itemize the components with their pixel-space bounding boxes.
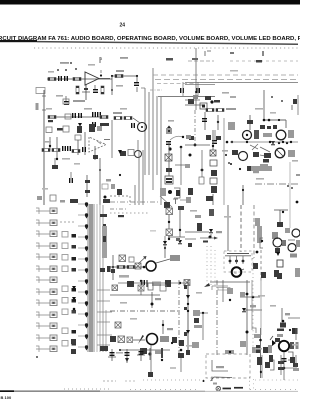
capacitor pair bc1	[108, 349, 116, 361]
gray bar right2	[160, 336, 169, 342]
connector stub K2	[36, 103, 39, 110]
transistor T105	[243, 131, 252, 140]
dark X bottom	[261, 272, 282, 279]
bus right comps	[100, 214, 107, 272]
tick marks on bus	[42, 96, 46, 110]
chain	[85, 175, 90, 197]
wire hook above logo	[203, 377, 233, 385]
transistor T101 leads	[82, 85, 90, 100]
transistor T102	[138, 123, 147, 132]
wire h3	[185, 104, 205, 106]
junction	[111, 255, 145, 280]
right edge marks	[296, 174, 300, 203]
volume area bottom wires	[204, 283, 230, 290]
capacitor C101	[58, 76, 62, 81]
cap C113	[69, 172, 73, 183]
dash vert	[129, 196, 131, 205]
dash marks bottom	[103, 380, 298, 381]
dark comp below	[263, 159, 269, 163]
bottom wires	[107, 266, 190, 287]
rb wire right	[288, 317, 300, 319]
resistor R109	[115, 70, 124, 78]
node labels row	[57, 57, 128, 71]
col label	[194, 325, 202, 328]
value label fuzz mid-right	[222, 150, 298, 180]
bottom rule	[0, 390, 298, 392]
GRUNDIG wordmark dash 2	[234, 387, 243, 389]
capacitor C104	[64, 96, 69, 105]
value label fuzz mid-left	[42, 141, 80, 190]
ladder resistor L13	[36, 346, 57, 352]
boxx C1	[119, 255, 126, 262]
svg-text:B 100: B 100	[1, 395, 12, 400]
dark mark	[185, 239, 196, 247]
gray box right	[295, 268, 300, 277]
left edge marks2	[184, 285, 187, 336]
boxx B1	[166, 208, 173, 215]
left bracket	[260, 238, 263, 248]
col diode	[186, 330, 190, 334]
capacitor C112	[62, 146, 71, 151]
boxx B2	[166, 229, 173, 236]
gray bar left of cluster	[257, 226, 262, 243]
wire B2	[168, 236, 170, 240]
dark comp row	[57, 123, 109, 131]
value label fuzz bottom	[116, 344, 298, 354]
comp bottom mid	[206, 196, 213, 201]
box r	[102, 179, 111, 199]
diode D106	[209, 229, 213, 238]
resistor R105 box	[63, 99, 69, 104]
wire row y267	[110, 266, 144, 268]
chain B wire	[212, 130, 214, 150]
mid dashed vert	[216, 280, 218, 355]
title underline rule	[0, 40, 298, 44]
connector K1 outline	[36, 88, 45, 94]
rail y142	[230, 141, 298, 143]
long vert dashed	[240, 205, 242, 252]
ladder resistor L6	[36, 266, 57, 272]
vert wire right	[242, 185, 244, 205]
long tail wire	[148, 345, 153, 377]
ladder resistor L5	[36, 254, 57, 260]
dotted separator line	[34, 47, 298, 49]
bottom gray	[225, 350, 234, 354]
volume unit frame	[224, 251, 252, 272]
wire feed	[111, 75, 138, 77]
wire input row	[47, 78, 112, 80]
gray label	[260, 164, 268, 167]
value label fuzz top-center	[116, 85, 174, 122]
capacitor C102	[64, 76, 68, 81]
left bus wire	[43, 90, 45, 205]
resistor row R112	[206, 108, 236, 112]
chain A box	[165, 154, 172, 161]
transistor T111	[273, 238, 282, 247]
bot comp r2	[278, 355, 284, 375]
dashdot line mid	[110, 201, 160, 203]
vert 152	[151, 292, 162, 308]
comp right of T105	[254, 130, 259, 139]
wire to T102	[133, 118, 140, 123]
motor M1	[232, 267, 244, 277]
transistor T107	[276, 130, 286, 140]
junction node chainA	[160, 188, 191, 208]
wire h2	[158, 58, 236, 104]
chain A box2	[165, 176, 173, 184]
dashed boundary vert	[178, 280, 180, 355]
capacitor pair bc3	[137, 348, 145, 361]
ladder dark diodes	[71, 286, 76, 354]
value label fuzz center	[150, 210, 231, 232]
boundary dash-dot vertical	[194, 110, 196, 146]
vert wire 100	[99, 158, 101, 205]
dotted guide line	[64, 388, 298, 391]
bus bottom comp	[100, 346, 108, 351]
wire B1	[168, 215, 170, 229]
comps around T107	[263, 130, 294, 138]
diode D101	[78, 123, 82, 127]
comp right gray	[253, 218, 260, 269]
connector pins	[85, 202, 88, 350]
chain B box3	[210, 178, 217, 184]
gray box x228	[228, 122, 235, 130]
rb box	[277, 328, 298, 334]
copyright circle	[216, 386, 221, 391]
dotted columns	[207, 246, 215, 286]
transistor T108	[275, 148, 285, 158]
bot comp r3	[290, 355, 296, 368]
resistor R101	[48, 78, 56, 81]
gray bar left	[110, 336, 116, 342]
resistor R113	[42, 149, 60, 152]
right dashed vert	[253, 205, 255, 258]
vert 163	[162, 320, 173, 334]
small box	[37, 195, 56, 201]
rb diode	[270, 336, 280, 346]
bus line 3	[152, 68, 154, 190]
chain wire down	[204, 112, 206, 130]
resistor R110	[113, 112, 122, 120]
ladder resistor L10	[36, 312, 57, 318]
svg-text:M: M	[234, 271, 237, 275]
ladder resistor L4	[36, 243, 57, 249]
comp cluster center-top	[185, 95, 200, 100]
bus right vertical	[103, 205, 106, 352]
junction dot bc4	[148, 348, 151, 360]
boxx C3	[135, 263, 141, 269]
wire h1	[180, 82, 215, 96]
dotted col right of box	[250, 377, 254, 392]
capacitor C106	[78, 113, 82, 118]
bus line 1	[141, 88, 145, 175]
col box	[186, 342, 199, 355]
gray blob	[272, 232, 278, 239]
rb dark dot	[280, 320, 286, 328]
T-junction top	[274, 210, 288, 224]
label right2	[216, 231, 222, 233]
gray bar	[290, 254, 297, 258]
mid vert solid	[210, 280, 250, 302]
wire y310	[242, 305, 262, 312]
boxx D3	[127, 337, 133, 343]
bus line 5	[160, 97, 162, 205]
comp row r1	[46, 124, 102, 133]
capacitor C107 pair	[92, 112, 101, 117]
ladder resistor L1	[36, 208, 57, 214]
small comps	[282, 240, 286, 246]
ladder resistor L9	[36, 300, 57, 306]
resistor R104 vertical	[101, 86, 104, 94]
op-amp U101	[85, 70, 110, 85]
cluster mid	[72, 147, 86, 153]
rb vert wire	[282, 308, 290, 322]
boxx D2	[118, 336, 125, 343]
dark bits row y137	[189, 135, 221, 140]
wire T109 out	[156, 259, 170, 263]
mid dark pin	[118, 150, 122, 154]
svg-text:24: 24	[120, 23, 126, 29]
boxx D1	[115, 322, 121, 328]
diode D105	[163, 236, 167, 249]
dashed boundary horiz	[110, 310, 180, 312]
dashed rail 4	[188, 60, 298, 62]
far right corner wire	[263, 90, 286, 128]
capacitor C105	[72, 113, 76, 118]
dark comp under T111	[275, 248, 280, 253]
right vert	[178, 206, 184, 237]
capacitor C110	[131, 123, 135, 128]
right cluster bc6	[171, 340, 184, 372]
junction dot A	[100, 74, 102, 76]
dark comp row bottom	[260, 125, 277, 129]
ladder dashes	[60, 221, 75, 223]
transistor T106	[239, 152, 248, 161]
ladder extra col boxes	[62, 232, 76, 347]
transistor T112	[288, 240, 300, 252]
left marks	[110, 174, 130, 196]
value label fuzz top-right	[222, 70, 276, 114]
dashed box bottom	[206, 354, 250, 378]
specks	[287, 185, 293, 189]
pot arrow	[133, 335, 145, 344]
chain B cap	[212, 130, 217, 144]
comp box	[277, 222, 283, 227]
col comps	[193, 310, 208, 340]
vertical wire left	[111, 76, 113, 95]
diode D107	[276, 252, 280, 256]
value label fuzz low	[120, 292, 276, 320]
wire T105	[231, 141, 233, 143]
cluster label	[195, 215, 202, 231]
dash-dot boundary right	[255, 183, 300, 185]
ladder resistor L7	[36, 277, 57, 283]
vert from diode	[164, 245, 166, 258]
vertical wire	[217, 115, 219, 130]
box outline	[277, 260, 283, 267]
pot arrow small	[138, 256, 147, 264]
boxx C2	[129, 257, 134, 262]
page top edge bar	[0, 0, 300, 5]
chain B box1	[210, 150, 216, 156]
right small comp	[256, 60, 298, 115]
bus line 2	[148, 92, 150, 175]
wires vert	[49, 137, 58, 160]
volume board right dotted boundary	[252, 258, 254, 352]
vert bar bc5	[161, 348, 163, 361]
left of chain B	[185, 144, 210, 195]
bus lines lower	[135, 150, 143, 205]
pin stub	[99, 57, 101, 63]
box gray	[285, 228, 290, 233]
bus stubs	[97, 290, 112, 345]
mid box	[227, 288, 233, 301]
node2	[246, 331, 261, 339]
resistor R115	[127, 266, 135, 269]
ladder resistor L3	[36, 231, 57, 237]
pin right	[176, 238, 180, 241]
wire right	[288, 239, 295, 241]
capacitor C108	[92, 122, 96, 127]
chain A node	[168, 147, 171, 150]
bot cluster 2	[170, 367, 176, 369]
angled wires	[260, 147, 270, 157]
comp bars2	[172, 337, 177, 343]
resistor R108	[100, 116, 108, 119]
transistor T114	[279, 341, 295, 380]
dashed rail 1	[153, 74, 298, 76]
dark node	[210, 100, 220, 104]
capacitor C103	[93, 85, 98, 93]
dark caps bottom	[60, 199, 110, 203]
ladder resistor L8	[36, 289, 57, 295]
base comp T106	[225, 141, 259, 164]
resistor R103 vertical	[76, 86, 79, 94]
ladder resistor L12	[36, 335, 57, 341]
chain B dark1	[211, 170, 217, 176]
left col vert	[187, 280, 189, 355]
rail 3 solid	[185, 82, 298, 84]
comp c1	[52, 158, 58, 169]
rb label	[277, 334, 283, 337]
arrow wire	[200, 237, 218, 240]
diode D104	[178, 240, 182, 244]
resistor R107 box	[65, 114, 71, 119]
transistor T103	[120, 140, 142, 158]
chain A dark	[166, 168, 172, 172]
left dot bottom	[36, 356, 38, 358]
footer B 100	[1, 395, 12, 400]
rb gray	[290, 342, 299, 349]
dashed rail 2	[155, 79, 298, 81]
long vert solid	[224, 118, 290, 251]
value label fuzz top-left	[46, 64, 95, 110]
lb edge vert	[260, 280, 262, 335]
resistor R102	[73, 78, 81, 81]
rail stub 5	[150, 84, 195, 91]
wire y295	[110, 280, 160, 295]
gray bar right	[170, 255, 180, 261]
dashed vert left	[260, 250, 262, 281]
capacitor pair bc2	[125, 349, 130, 363]
connector bus lines	[88, 204, 100, 352]
node1	[240, 292, 260, 298]
bot comp r1	[257, 355, 273, 365]
right comp D102	[247, 115, 253, 130]
row boxes top	[112, 281, 166, 291]
capacitor C109	[134, 76, 139, 92]
bus line 4	[156, 96, 158, 175]
rb vert left	[252, 328, 272, 378]
volume unit top bar	[203, 241, 251, 256]
resistor R106	[48, 116, 56, 123]
dash-dot label row	[110, 209, 150, 217]
title text	[0, 36, 302, 42]
resistor R111	[124, 117, 132, 120]
wire y232	[185, 232, 212, 239]
wire across	[168, 236, 185, 238]
right verts	[247, 280, 252, 355]
value 470k	[119, 275, 129, 278]
transistor T113	[147, 334, 158, 345]
volume unit pins	[229, 256, 245, 264]
wire out	[93, 140, 110, 161]
chain B dark2	[211, 186, 217, 205]
chain A cap1	[166, 126, 191, 146]
op-amp U103	[89, 120, 112, 158]
col nodes	[186, 295, 190, 312]
rb bottom comps	[262, 352, 299, 378]
ladder resistor L2	[36, 220, 57, 226]
transistor T110	[292, 229, 300, 237]
value label 4k7	[73, 100, 85, 102]
wide gray label	[230, 163, 272, 171]
small mark under separator	[100, 51, 264, 61]
chain B box2	[210, 160, 217, 166]
diode D103	[271, 141, 288, 145]
comp row r2 mid	[75, 132, 85, 155]
inside L shape	[212, 360, 228, 371]
bottom wires2	[119, 348, 170, 354]
ladder-to-connector stub wires	[78, 204, 85, 347]
resistor R114	[117, 266, 125, 269]
transistor T109	[146, 261, 156, 271]
vertical wire V195	[195, 48, 197, 110]
rb wire right top	[295, 328, 297, 340]
GRUNDIG wordmark dash 1	[223, 388, 232, 390]
comps around T108	[264, 150, 295, 158]
page number 24	[120, 23, 126, 29]
IC box U102	[200, 103, 207, 109]
label right	[253, 171, 259, 173]
box small	[209, 209, 214, 216]
capacitor C111	[202, 118, 219, 123]
mid cluster wire	[48, 116, 108, 118]
chain A wire	[169, 142, 185, 185]
ladder resistor L11	[36, 323, 57, 329]
comp bars	[274, 270, 279, 277]
comp3	[240, 341, 246, 347]
